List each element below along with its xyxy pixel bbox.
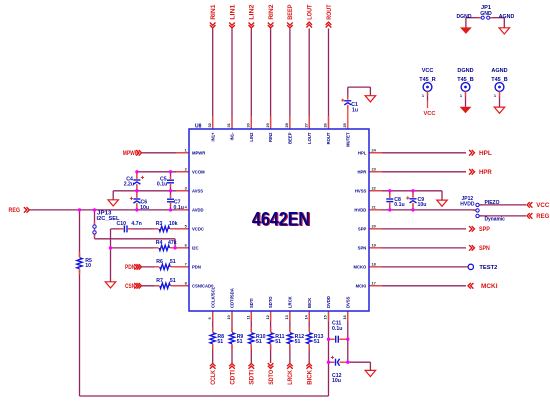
svg-text:VCDC: VCDC [192,227,204,232]
svg-text:R3: R3 [156,221,163,227]
svg-text:47k: 47k [168,240,177,246]
svg-text:VCOM: VCOM [192,169,205,174]
svg-text:0.1u: 0.1u [332,326,342,332]
svg-text:51: 51 [217,339,223,345]
svg-text:C10: C10 [117,221,127,227]
svg-text:BEEP: BEEP [288,4,294,19]
svg-text:HPL: HPL [479,151,492,157]
svg-text:HPR: HPR [479,170,492,176]
svg-text:LRCK: LRCK [288,296,293,308]
svg-text:4642EN: 4642EN [252,210,310,231]
svg-text:IN1-: IN1- [230,132,235,141]
svg-text:0.1u: 0.1u [394,202,404,208]
svg-text:LOUT: LOUT [308,4,314,20]
svg-text:4.7n: 4.7n [131,221,141,227]
svg-text:R4: R4 [156,240,163,246]
svg-text:51: 51 [275,339,281,345]
svg-text:MPWR: MPWR [192,150,205,155]
svg-text:51: 51 [256,339,262,345]
svg-text:LIN1: LIN1 [230,4,236,20]
svg-text:REG: REG [9,208,21,214]
svg-text:SDTO: SDTO [268,296,273,308]
svg-text:HPL: HPL [358,150,367,155]
svg-text:T45_R: T45_R [419,77,436,83]
svg-text:51: 51 [170,278,176,284]
svg-text:SDTO: SDTO [269,370,275,385]
svg-text:AGND: AGND [499,14,515,20]
svg-text:0.1u: 0.1u [157,182,167,188]
svg-text:MPWR: MPWR [123,151,139,157]
svg-text:SPN: SPN [358,246,367,251]
svg-text:IN1+: IN1+ [210,132,215,142]
svg-text:10k: 10k [169,221,178,227]
svg-text:R7: R7 [156,278,163,284]
svg-text:LIN2: LIN2 [250,4,256,20]
svg-text:51: 51 [237,339,243,345]
svg-text:LOUT: LOUT [307,132,312,144]
svg-text:1u: 1u [352,108,358,114]
svg-text:MUTET: MUTET [345,132,350,147]
svg-text:SPP: SPP [479,227,490,233]
svg-text:U8: U8 [195,124,202,130]
svg-text:20: 20 [372,224,376,229]
svg-text:LRCK: LRCK [288,369,294,384]
svg-text:HVSS: HVSS [355,188,367,193]
svg-text:CCLK: CCLK [211,369,217,384]
svg-text:RIN2: RIN2 [268,132,273,142]
svg-text:MCKI: MCKI [481,284,498,290]
svg-text:CCLK/SCL: CCLK/SCL [210,286,215,308]
svg-text:DGND: DGND [457,14,472,20]
svg-text:TEST2: TEST2 [479,265,497,271]
svg-text:PIEZO: PIEZO [485,200,500,206]
svg-text:PDN: PDN [125,265,135,271]
svg-text:CSN: CSN [125,284,135,290]
svg-text:DVDD: DVDD [326,296,331,308]
svg-text:VCC: VCC [422,68,434,74]
svg-text:RIN1: RIN1 [211,4,217,20]
svg-text:BEEP: BEEP [288,132,293,144]
svg-text:10u: 10u [332,378,341,384]
svg-text:CDTI/SDA: CDTI/SDA [230,288,235,308]
svg-text:AVDD: AVDD [192,208,204,213]
svg-text:R6: R6 [156,259,163,265]
svg-text:ROUT: ROUT [327,4,333,20]
svg-text:BICK: BICK [308,369,314,384]
svg-text:10u: 10u [140,205,149,211]
svg-text:VCC: VCC [536,203,550,209]
svg-text:AGND: AGND [491,68,507,74]
svg-text:MCKO: MCKO [354,265,368,270]
svg-text:SDTI: SDTI [249,298,254,308]
svg-text:51: 51 [295,339,301,345]
svg-text:DVSS: DVSS [345,296,350,308]
svg-text:I2C: I2C [192,246,199,251]
svg-text:MCKI: MCKI [356,283,367,288]
svg-text:HVDD: HVDD [460,201,475,207]
svg-text:AVSS: AVSS [192,188,203,193]
svg-text:SPP: SPP [358,227,367,232]
svg-text:51: 51 [314,339,320,345]
svg-text:27: 27 [303,123,308,127]
svg-text:T45_B: T45_B [491,77,508,83]
svg-text:CDTI: CDTI [230,370,236,385]
svg-text:REG: REG [536,214,549,220]
svg-text:10: 10 [226,315,231,319]
svg-text:ROUT: ROUT [326,132,331,144]
svg-text:0.1u: 0.1u [174,205,184,211]
svg-text:Dynamic: Dynamic [485,217,506,223]
svg-text:PDN: PDN [192,265,201,270]
svg-text:BICK: BICK [307,298,312,308]
svg-text:VCC: VCC [424,111,437,117]
svg-text:HVDD: HVDD [354,208,366,213]
svg-text:30: 30 [246,123,251,127]
svg-text:51: 51 [170,259,176,265]
svg-text:GND: GND [480,11,492,17]
svg-text:7: 7 [185,262,187,267]
svg-text:T45_B: T45_B [457,77,474,83]
svg-text:SDTI: SDTI [250,370,256,385]
svg-text:10: 10 [85,263,91,269]
svg-text:10u: 10u [418,202,427,208]
svg-text:DGND: DGND [457,68,473,74]
svg-text:SPN: SPN [479,246,490,252]
svg-text:LIN2: LIN2 [249,132,254,142]
svg-text:HPR: HPR [357,169,366,174]
svg-text:17: 17 [372,281,376,286]
svg-text:2.2u: 2.2u [124,182,134,188]
svg-text:RIN2: RIN2 [269,4,275,20]
